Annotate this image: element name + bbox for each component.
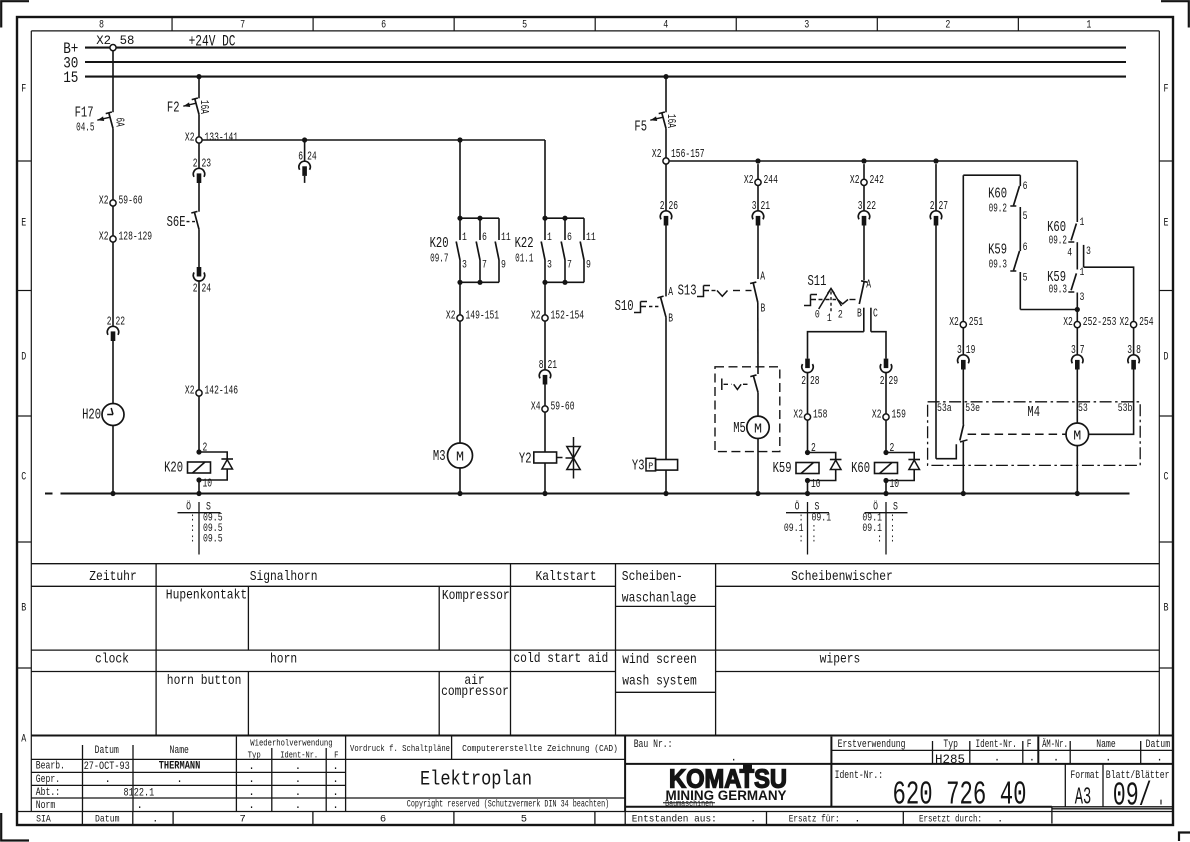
svg-text:C: C [21,472,26,484]
svg-text:133-141: 133-141 [205,131,239,145]
svg-text:X2: X2 [744,173,754,187]
svg-text:SIA: SIA [36,814,51,826]
svg-text:27: 27 [939,199,949,213]
svg-text:6: 6 [381,20,386,32]
svg-text:3: 3 [804,20,809,32]
svg-text:7: 7 [482,260,487,272]
svg-text:.: . [750,814,756,826]
svg-text:59-60: 59-60 [551,400,575,414]
svg-text:.: . [248,787,255,799]
svg-text:F5: F5 [634,120,647,136]
svg-text:K60: K60 [851,461,870,477]
svg-text:Ident-Nr.: Ident-Nr. [976,739,1017,751]
svg-text:4: 4 [663,20,668,32]
svg-text:1: 1 [1080,267,1085,279]
svg-text:.: . [994,753,1001,765]
svg-text:X4: X4 [531,400,541,414]
svg-text:59-60: 59-60 [119,194,143,208]
svg-text:.: . [1105,753,1112,765]
svg-text:.: . [248,800,255,812]
svg-text:.: . [295,787,302,799]
svg-text:Ersetzt durch:: Ersetzt durch: [919,814,982,826]
svg-text::: : [890,534,895,546]
svg-text:7: 7 [240,814,246,826]
svg-text:.: . [1053,753,1060,765]
svg-text:Copyright reserved (Schutzverm: Copyright reserved (Schutzvermerk DIN 34… [407,799,609,811]
svg-text:S11: S11 [808,274,827,290]
svg-text:K20: K20 [164,461,183,477]
svg-text:23: 23 [202,157,212,171]
svg-text:.: . [176,774,183,786]
svg-text:254: 254 [1139,315,1153,329]
svg-text:H285: H285 [935,752,965,767]
svg-text:F: F [334,750,339,761]
svg-text:B: B [857,307,862,321]
svg-text:D: D [21,352,26,364]
svg-text:Typ: Typ [248,750,261,761]
svg-text:M4: M4 [1027,405,1040,421]
svg-text:21: 21 [548,358,558,372]
svg-text:28: 28 [810,374,820,388]
svg-text:6: 6 [380,814,386,826]
svg-text:THERMANN: THERMANN [159,761,201,773]
svg-text:09.5: 09.5 [203,534,223,546]
svg-text:Ident-Nr.:: Ident-Nr.: [835,770,884,782]
svg-text:3: 3 [1086,246,1091,258]
svg-text:2: 2 [945,20,950,32]
svg-text:5: 5 [1023,273,1028,285]
svg-text::: : [190,534,195,546]
svg-text:Y3: Y3 [632,459,645,475]
svg-text:2: 2 [890,441,895,455]
svg-text:53a: 53a [937,403,952,415]
svg-text:26: 26 [669,199,679,213]
svg-text:clock: clock [95,652,129,668]
svg-text:X2: X2 [99,194,109,208]
svg-text:5: 5 [1023,211,1028,223]
svg-text:29: 29 [889,374,899,388]
svg-text:wash system: wash system [622,673,697,689]
svg-text:Name: Name [1096,739,1115,751]
svg-text:53e: 53e [965,403,980,415]
svg-text:X2: X2 [1063,315,1073,329]
svg-text:3: 3 [547,260,552,272]
svg-text:X2: X2 [96,33,111,48]
svg-text:Y2: Y2 [519,452,532,468]
svg-text:M3: M3 [433,449,446,465]
svg-text:A: A [668,285,673,299]
svg-text:A3: A3 [1075,785,1092,812]
svg-text:.: . [152,814,158,826]
svg-text:2: 2 [203,441,208,455]
svg-text:B: B [761,302,766,316]
svg-text:.: . [104,774,111,786]
svg-text:F17: F17 [75,106,94,122]
svg-text:S13: S13 [678,284,697,300]
svg-text:M5: M5 [733,421,746,437]
svg-text:09.2: 09.2 [989,203,1007,216]
svg-text:04.5: 04.5 [76,122,94,135]
svg-text:A: A [866,278,871,292]
svg-text:58: 58 [120,33,135,48]
svg-text:+24V DC: +24V DC [189,33,236,51]
svg-text:.: . [1029,753,1036,765]
svg-text:M: M [754,421,762,437]
svg-text:6: 6 [482,232,487,244]
svg-text:251: 251 [969,315,983,329]
svg-text:B: B [1164,603,1169,615]
svg-text:A: A [760,270,765,284]
svg-text:6: 6 [1023,181,1028,193]
svg-text:Ident-Nr.: Ident-Nr. [280,750,318,761]
svg-text:0: 0 [815,310,820,322]
svg-text:09.3: 09.3 [1049,284,1067,297]
svg-text:compressor: compressor [441,684,509,700]
svg-text:16A: 16A [664,114,677,128]
svg-text:.: . [248,774,255,786]
svg-text:X2: X2 [99,230,109,244]
svg-text:horn button: horn button [167,673,242,689]
svg-text:Zeituhr: Zeituhr [89,569,136,585]
svg-text:244: 244 [764,173,778,187]
svg-text:24: 24 [307,149,317,163]
svg-text:156-157: 156-157 [671,147,705,161]
svg-text:142-146: 142-146 [205,384,239,398]
svg-text:1: 1 [462,232,467,244]
svg-text:10: 10 [811,477,821,491]
svg-text:X2: X2 [949,315,959,329]
svg-text:7: 7 [567,260,572,272]
svg-text:X2: X2 [185,384,195,398]
svg-text:F: F [1027,739,1032,751]
svg-text:152-154: 152-154 [551,309,585,323]
svg-text:Format: Format [1070,770,1099,782]
svg-text:.: . [295,761,302,773]
svg-text:K60: K60 [988,187,1007,203]
svg-text:10: 10 [890,477,900,491]
svg-text:Datum: Datum [95,745,120,757]
svg-text:5: 5 [522,20,527,32]
svg-text:.: . [1156,753,1163,765]
svg-text:D: D [1164,352,1169,364]
svg-text:.: . [332,787,339,799]
svg-text:K20: K20 [430,236,449,252]
svg-text:149-151: 149-151 [466,309,500,323]
svg-text:09.3: 09.3 [989,259,1007,272]
svg-text:waschanlage: waschanlage [622,591,697,607]
svg-text:.: . [332,774,339,786]
svg-text:E: E [21,218,26,230]
svg-text:.: . [332,761,339,773]
svg-text:Norm: Norm [36,800,56,812]
svg-text:10: 10 [203,477,213,491]
svg-text:620 726 40: 620 726 40 [893,777,1027,814]
svg-text:horn: horn [270,652,297,668]
svg-text:6: 6 [1023,242,1028,254]
svg-text:.: . [136,800,143,812]
svg-text:Entstanden aus:: Entstanden aus: [632,814,717,826]
svg-text:4: 4 [1067,248,1072,260]
svg-text:9: 9 [586,260,591,272]
svg-text:Vordruck f. Schaltpläne: Vordruck f. Schaltpläne [350,743,450,754]
svg-text:6A: 6A [113,118,126,127]
svg-text:128-129: 128-129 [119,230,153,244]
svg-text:X2: X2 [793,408,803,422]
svg-text:22: 22 [116,315,126,329]
svg-text:.: . [854,814,860,826]
svg-text:F2: F2 [167,101,180,117]
svg-text:K22: K22 [515,236,534,252]
svg-text:X2: X2 [850,173,860,187]
svg-text:2: 2 [811,441,816,455]
svg-text:27-OCT-93: 27-OCT-93 [84,761,130,773]
svg-text:09/: 09/ [1113,778,1152,815]
svg-text:B: B [668,312,673,326]
svg-text:P: P [648,460,653,471]
svg-text:Kaltstart: Kaltstart [535,569,596,585]
svg-text:M: M [456,450,464,466]
svg-text:22: 22 [867,199,877,213]
svg-text:Kompressor: Kompressor [442,588,510,604]
svg-text:Scheiben-: Scheiben- [622,569,683,585]
svg-text:2: 2 [838,310,843,322]
svg-text:11: 11 [501,232,511,244]
svg-text:6: 6 [567,232,572,244]
svg-text:Erstverwendung: Erstverwendung [838,739,906,751]
svg-text:X2: X2 [185,131,195,145]
svg-text::: : [799,534,804,546]
svg-text:M: M [1073,428,1081,444]
svg-text:3: 3 [462,260,467,272]
svg-text:Datum: Datum [95,814,120,826]
svg-text:21: 21 [761,199,771,213]
svg-text:B: B [21,603,26,615]
svg-text:X2: X2 [531,309,541,323]
svg-text:1: 1 [1080,217,1085,229]
svg-text::: : [812,534,817,546]
svg-text:.: . [997,814,1003,826]
svg-text:X2: X2 [1120,315,1130,329]
svg-text:24: 24 [202,282,212,296]
svg-text:.: . [332,800,339,812]
svg-text:.: . [1158,778,1164,815]
svg-text:ÄM-Nr.: ÄM-Nr. [1042,738,1068,751]
svg-text:A: A [21,734,26,746]
svg-text:wind screen: wind screen [622,652,697,668]
svg-text:Scheibenwischer: Scheibenwischer [791,569,893,585]
svg-text:Hupenkontakt: Hupenkontakt [166,588,247,604]
svg-text:Datum: Datum [1146,739,1171,751]
svg-text:K59: K59 [988,243,1007,259]
svg-text:Computererstellte Zeichnung (C: Computererstellte Zeichnung (CAD) [462,743,618,754]
svg-text:Elektroplan: Elektroplan [420,769,532,792]
svg-text:11: 11 [586,232,596,244]
svg-text:7: 7 [240,20,245,32]
svg-text:F: F [1164,84,1169,96]
svg-text:15: 15 [63,69,78,87]
svg-text:cold start aid: cold start aid [513,651,608,667]
svg-text:C: C [873,307,878,321]
svg-text:H20: H20 [82,408,101,424]
svg-text::: : [877,534,882,546]
svg-text:2: 2 [801,374,806,388]
svg-text:1: 1 [547,232,552,244]
svg-text:158: 158 [813,408,827,422]
svg-text:8122.1: 8122.1 [124,788,155,800]
svg-text:09.7: 09.7 [430,253,448,266]
svg-text:X2: X2 [652,147,662,161]
svg-text:C: C [1164,472,1169,484]
svg-text:X2: X2 [446,309,456,323]
svg-text:E: E [1164,218,1169,230]
svg-text:242: 242 [870,173,884,187]
svg-text:Bau Nr.:: Bau Nr.: [634,739,673,751]
svg-text:01.1: 01.1 [515,253,533,266]
svg-text:1: 1 [1086,20,1091,32]
svg-text:3: 3 [1080,292,1085,304]
svg-text:F: F [21,84,26,96]
svg-text:.: . [295,774,302,786]
svg-text:K59: K59 [773,461,792,477]
svg-text:09.2: 09.2 [1049,235,1067,248]
svg-text:.: . [295,800,302,812]
svg-text:S6E: S6E [167,215,186,231]
svg-text:53: 53 [1078,403,1088,415]
svg-text:wipers: wipers [820,652,861,668]
svg-text:1: 1 [827,313,832,325]
svg-text:53b: 53b [1118,403,1133,415]
svg-text:Gepr.: Gepr. [36,774,60,786]
svg-text:5: 5 [521,814,527,826]
svg-text:2: 2 [880,374,885,388]
svg-text:Bearb.: Bearb. [36,761,65,773]
svg-text:16A: 16A [197,100,210,114]
svg-text:Ersatz für:: Ersatz für: [789,814,840,826]
svg-text:Name: Name [170,745,189,757]
svg-text:Baumaschinen: Baumaschinen [665,799,713,809]
svg-text:Wiederholverwendung: Wiederholverwendung [250,738,332,749]
svg-text:8: 8 [99,20,104,32]
svg-text:Signalhorn: Signalhorn [250,569,318,585]
svg-text:252-253: 252-253 [1083,315,1117,329]
svg-text:Typ: Typ [943,739,958,751]
svg-text:19: 19 [966,343,976,357]
svg-text:9: 9 [501,260,506,272]
svg-text:159: 159 [892,408,906,422]
svg-text:.: . [248,761,255,773]
svg-text:2: 2 [193,282,198,296]
svg-text:X2: X2 [872,408,882,422]
svg-text:S10: S10 [615,299,634,315]
svg-text:Abt.:: Abt.: [36,787,60,799]
